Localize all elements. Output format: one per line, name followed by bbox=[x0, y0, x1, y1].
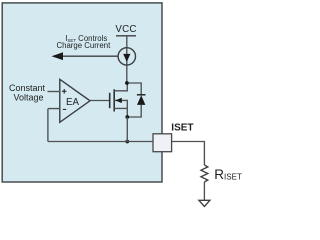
svg-text:Charge Current: Charge Current bbox=[57, 41, 112, 50]
svg-text:RISET: RISET bbox=[214, 167, 242, 182]
svg-text:VCC: VCC bbox=[115, 24, 136, 35]
svg-text:EA: EA bbox=[66, 97, 79, 108]
svg-text:ISET: ISET bbox=[171, 123, 193, 134]
svg-text:Voltage: Voltage bbox=[13, 92, 43, 102]
